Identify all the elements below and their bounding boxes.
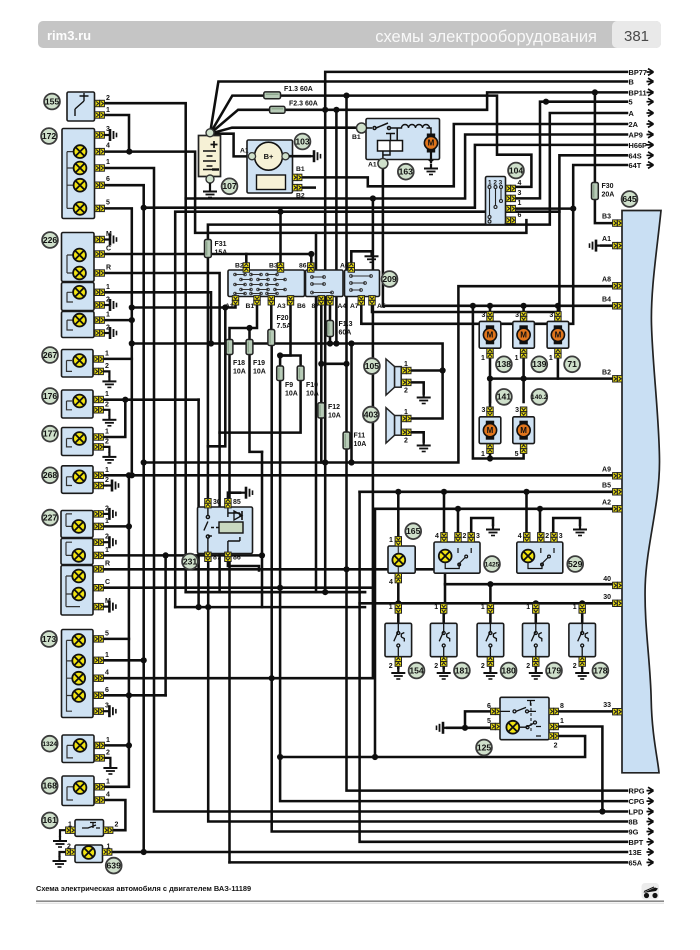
svg-text:40: 40: [603, 576, 611, 583]
svg-text:6: 6: [518, 212, 522, 219]
165 terminal 4: [395, 573, 401, 582]
label circle 177: [42, 426, 58, 442]
label circle 71: [564, 356, 580, 372]
wire switch 155 pin1 to 172 pin4: [102, 115, 129, 152]
139 terminal 3: [520, 312, 526, 321]
fuse F2.3: [270, 106, 285, 113]
svg-text:104: 104: [509, 165, 524, 175]
switch 161: [75, 820, 104, 837]
arrow 64T: [647, 162, 654, 169]
lamp in 226: [73, 314, 86, 327]
label circle 155: [44, 94, 60, 110]
svg-text:1: 1: [404, 361, 408, 368]
inner link 1324: [67, 745, 73, 758]
motor unit 140.2: [513, 417, 535, 444]
svg-text:H66P: H66P: [629, 141, 648, 150]
switch glyph 154: [394, 623, 405, 656]
junction: [277, 754, 283, 760]
227 terminal 1b: [94, 552, 103, 558]
139 terminal 1: [520, 349, 526, 358]
svg-text:M: M: [428, 139, 435, 148]
wire net AP9: [186, 135, 627, 593]
wire switch 179 pin1: [535, 613, 538, 623]
label circle 179: [546, 663, 562, 679]
wire fusebox A3 to F9: [280, 299, 290, 366]
junction: [487, 376, 493, 382]
svg-text:F9: F9: [285, 382, 293, 389]
arrow BPT: [647, 838, 654, 845]
wire switch 179 pin2: [535, 657, 538, 668]
lamp relay unit 1425: [434, 542, 480, 573]
svg-text:B4: B4: [602, 296, 611, 303]
inner link 177: [67, 439, 73, 447]
starter 163: [366, 119, 440, 160]
horn 105 terminal 2: [402, 379, 411, 385]
svg-text:A2: A2: [602, 499, 611, 506]
junction: [440, 367, 446, 373]
svg-text:5: 5: [106, 199, 110, 206]
168 terminal 4: [95, 797, 104, 803]
125 terminal 8: [549, 708, 558, 714]
footer rule: [36, 900, 664, 902]
svg-text:A7: A7: [350, 303, 359, 310]
wire B5 to 529 pin4: [525, 492, 528, 533]
529 terminal 3: [551, 533, 557, 542]
junction: [372, 754, 378, 760]
lamp unit 639: [75, 845, 103, 863]
ground at 161: [53, 836, 67, 847]
label circle 403: [363, 407, 379, 423]
227 terminal 2b: [94, 539, 103, 545]
junction: [570, 206, 576, 212]
wire F12 down: [320, 418, 323, 463]
svg-text:8B: 8B: [629, 818, 638, 827]
wire 172 pin4 to 104 pin6: [104, 152, 526, 233]
switch 180: [477, 623, 504, 656]
switch glyph 181: [439, 623, 450, 656]
junction: [126, 742, 132, 748]
wire motor 138 pin1 down: [489, 356, 492, 459]
svg-text:10A: 10A: [354, 441, 367, 448]
wire horn frame left: [350, 344, 353, 463]
motor M 139: [517, 325, 530, 344]
231 terminal 85: [225, 499, 231, 508]
horn 403: [386, 408, 395, 443]
svg-text:B2: B2: [296, 193, 305, 200]
svg-text:1: 1: [106, 778, 110, 785]
141 terminal 3: [487, 407, 493, 416]
lamp unit 1324: [62, 735, 94, 763]
1425 terminal 4: [441, 533, 447, 542]
motor unit 138: [479, 321, 501, 348]
173 terminal 4: [94, 675, 103, 681]
svg-text:10A: 10A: [233, 369, 246, 376]
arrow H66P: [647, 142, 654, 149]
wire switch 178 pin2: [581, 657, 584, 668]
panel terminal A2: [613, 506, 622, 512]
lamp in 529: [522, 550, 535, 563]
wire to panel A8: [144, 286, 614, 462]
226 terminal 2b: [95, 330, 104, 336]
wire run y592: [186, 591, 365, 594]
svg-text:2: 2: [67, 844, 71, 851]
junction: [205, 604, 211, 610]
lamp unit 176: [62, 390, 94, 418]
fuse F20: [268, 330, 275, 346]
141 terminal 1: [487, 444, 493, 453]
svg-text:M: M: [520, 426, 527, 435]
svg-text:F1.3: F1.3: [339, 321, 353, 328]
wire x262 down: [261, 452, 264, 607]
wire fusebox A1 to relay 30 jog: [208, 308, 225, 447]
wire branch F2.3 down: [335, 110, 338, 344]
wire A2 to 1425 pin2: [457, 509, 460, 533]
svg-text:6: 6: [106, 176, 110, 183]
wire fusebox 87 jog: [321, 363, 346, 366]
wire fusebox A1 left: [132, 299, 236, 308]
motor M 138: [483, 325, 496, 344]
svg-text:A1: A1: [368, 162, 377, 169]
wire net B5: [360, 491, 614, 494]
104 terminal 3: [506, 195, 515, 201]
71 terminal 3: [555, 312, 561, 321]
1425 terminal 2: [455, 533, 461, 542]
svg-text:2: 2: [105, 401, 109, 408]
wire switch 178 pin1: [581, 613, 584, 623]
svg-text:F30: F30: [602, 183, 614, 190]
panel terminal A8: [613, 283, 622, 289]
junction: [523, 489, 529, 495]
ground at 1324: [103, 763, 117, 774]
generator terminal B2: [293, 184, 302, 190]
226 terminal 1b: [95, 317, 104, 323]
wire net 30 bus: [360, 602, 614, 605]
wire 1324 pin1: [104, 744, 129, 747]
wire F9 to net CPG: [280, 381, 627, 802]
lamp relay unit 529: [517, 542, 563, 573]
svg-text:71: 71: [567, 359, 577, 369]
svg-text:2: 2: [404, 438, 408, 445]
svg-text:1: 1: [106, 107, 110, 114]
wire bundle x143.7 down: [142, 186, 145, 852]
svg-text:1: 1: [515, 355, 519, 362]
svg-text:1: 1: [573, 604, 577, 611]
fuse F19: [246, 340, 253, 355]
svg-text:B: B: [629, 78, 634, 87]
svg-text:2: 2: [526, 663, 530, 670]
svg-text:86: 86: [299, 263, 307, 270]
inner links 226: [67, 255, 73, 330]
label circle 140.2: [531, 389, 548, 405]
svg-text:1: 1: [105, 652, 109, 659]
lamp in 173: [72, 689, 85, 702]
lamp block 226 a: [62, 233, 95, 282]
motor M 140.2: [517, 421, 530, 440]
svg-text:163: 163: [399, 166, 414, 176]
svg-text:2: 2: [106, 749, 110, 756]
125 terminal 5: [491, 723, 500, 729]
226 terminal 1: [95, 289, 104, 295]
fusebox terminal B6: [318, 296, 324, 305]
junction: [126, 692, 132, 698]
svg-text:3: 3: [515, 407, 519, 414]
svg-text:181: 181: [455, 665, 470, 675]
junction: [277, 352, 283, 358]
horn 105: [386, 359, 395, 395]
svg-text:BP11: BP11: [629, 88, 647, 97]
svg-text:2: 2: [106, 95, 110, 102]
ground at 267: [102, 376, 116, 387]
wire 176 to 177 link: [104, 400, 125, 437]
svg-text:B3: B3: [602, 214, 611, 221]
wire 173 pin1: [104, 659, 144, 662]
motor M 141: [483, 421, 496, 440]
104 terminal 1: [506, 205, 515, 211]
arrow 65A: [647, 859, 654, 866]
wire 173 pin4 run: [104, 677, 373, 680]
svg-text:1: 1: [105, 391, 109, 398]
junction: [487, 303, 493, 309]
svg-text:64T: 64T: [629, 161, 642, 170]
fusebox terminal B1: [254, 296, 260, 305]
switch 179: [523, 623, 550, 656]
svg-text:2: 2: [105, 477, 109, 484]
svg-text:165: 165: [406, 526, 421, 536]
label circle 231: [182, 554, 198, 570]
svg-text:10A: 10A: [285, 391, 298, 398]
180 terminal 1: [487, 604, 493, 613]
lamp cluster 172: [62, 129, 95, 219]
639 terminal 2: [66, 849, 75, 855]
svg-text:1: 1: [105, 547, 109, 554]
wire 176 run right: [125, 398, 198, 401]
179 terminal 2: [533, 657, 539, 666]
226 terminal 2: [95, 302, 104, 308]
wire 1324 to ground: [104, 758, 110, 764]
label circle 141: [496, 389, 512, 405]
227 terminal M: [94, 603, 103, 609]
svg-text:155: 155: [45, 96, 60, 106]
svg-text:30: 30: [603, 594, 611, 601]
switch 181: [430, 623, 457, 656]
231 terminal 30: [205, 499, 211, 508]
svg-text:2: 2: [481, 663, 485, 670]
140.2 terminal 3: [520, 407, 526, 416]
wire motor 141 pin3: [489, 379, 492, 402]
wire net 64T to 104 pin 1: [507, 165, 627, 209]
wire motor 140.2 pin3: [522, 379, 525, 402]
fusebox 209 section 3: [345, 270, 380, 297]
switch glyph 178: [578, 623, 589, 656]
ground at panel A1: [590, 240, 601, 252]
178 terminal 2: [579, 657, 585, 666]
lamp in 227: [72, 588, 85, 601]
267 terminal 1: [94, 356, 103, 362]
svg-text:1: 1: [107, 844, 111, 851]
wire 529 pin3 gnd: [553, 518, 580, 533]
268 terminal 2: [94, 482, 103, 488]
svg-text:179: 179: [547, 665, 562, 675]
svg-text:15A: 15A: [215, 250, 228, 257]
wire horn 403 pin2 gnd: [411, 432, 424, 441]
junction: [343, 93, 349, 99]
label circle 226: [42, 232, 58, 248]
horn 105 terminal 1: [402, 367, 411, 373]
junction: [370, 195, 376, 201]
1425 terminal 3: [468, 533, 474, 542]
639 terminal 1: [103, 849, 112, 855]
wire 1425 pin3 gnd: [471, 518, 493, 533]
svg-text:F20: F20: [277, 315, 289, 322]
svg-text:4: 4: [106, 143, 110, 150]
junction: [277, 585, 283, 591]
173 terminal 5: [94, 636, 103, 642]
junction: [470, 303, 476, 309]
inner link 168: [67, 787, 73, 800]
172 terminal 1: [95, 165, 104, 171]
173 terminal 3: [94, 708, 103, 714]
label circle 181: [454, 663, 470, 679]
connector 104: [486, 177, 506, 225]
wire fusebox A7 down: [360, 299, 363, 324]
fuse F12: [318, 403, 325, 418]
svg-text:381: 381: [624, 28, 649, 45]
arrow A: [647, 110, 654, 117]
163 solenoid: [378, 141, 403, 152]
wire run y607: [175, 606, 365, 609]
svg-text:141: 141: [497, 392, 512, 402]
wire net B: [210, 82, 627, 134]
svg-text:1: 1: [526, 604, 530, 611]
lamp in 226: [73, 267, 86, 280]
wire motor frame U: [473, 306, 524, 459]
label circle 138: [496, 356, 512, 372]
wire 226 R to fuse F10: [104, 273, 301, 433]
svg-text:A1: A1: [225, 303, 234, 310]
svg-text:87: 87: [312, 303, 320, 310]
wire net 2A to generator B1: [301, 124, 627, 186]
svg-text:B2: B2: [235, 263, 244, 270]
connector 104 pins: [488, 186, 503, 224]
226 terminal M: [95, 236, 104, 242]
ground at 226 pin2: [104, 299, 117, 311]
svg-text:3: 3: [476, 533, 480, 540]
svg-text:2: 2: [434, 663, 438, 670]
fusebox section2 contacts: [311, 276, 334, 294]
panel terminal 30: [613, 600, 622, 606]
svg-text:1: 1: [105, 429, 109, 436]
label circle 154: [409, 663, 425, 679]
wire net A to fuse F31: [208, 113, 627, 240]
battery minus terminal: [206, 175, 214, 183]
starter motor M: [424, 134, 437, 153]
lamp in 227: [72, 549, 85, 562]
wire F30 to panel B3: [595, 200, 614, 224]
label circle 268: [42, 467, 58, 483]
ground at 172 pin3: [104, 129, 117, 141]
inner link 176: [67, 401, 73, 410]
165 terminal 1: [395, 537, 401, 546]
140.2 terminal 5: [520, 444, 526, 453]
svg-text:LPD: LPD: [629, 808, 644, 817]
svg-text:180: 180: [501, 665, 516, 675]
svg-text:20A: 20A: [602, 192, 615, 199]
svg-text:1: 1: [549, 355, 553, 362]
junction: [322, 589, 328, 595]
wire generator B2 stub: [302, 186, 316, 189]
junction: [521, 376, 527, 382]
lamp in 226: [73, 249, 86, 262]
inner link 172: [67, 152, 73, 209]
lamp in 1425: [439, 550, 452, 563]
switch glyph 155: [75, 93, 89, 116]
svg-text:4: 4: [518, 533, 522, 540]
svg-text:4: 4: [389, 579, 393, 586]
svg-text:1: 1: [481, 355, 485, 362]
ground at 125: [437, 722, 448, 734]
svg-text:M: M: [487, 331, 494, 340]
wire 639 to ground: [60, 852, 67, 856]
lamp in 172: [74, 145, 87, 158]
arrow 64S: [647, 152, 654, 159]
switch 178: [569, 623, 596, 656]
svg-text:A5: A5: [377, 303, 386, 310]
panel terminal 40: [613, 582, 622, 588]
svg-text:172: 172: [42, 131, 57, 141]
wire 125 pin6: [465, 711, 500, 727]
529 internals: [528, 548, 554, 569]
wire 125 pin8 to panel 33: [549, 710, 614, 713]
svg-text:B1: B1: [352, 134, 361, 141]
junction: [129, 340, 135, 346]
ground under 154: [391, 668, 405, 679]
label circle 163: [398, 164, 414, 180]
switch 155: [67, 92, 95, 121]
wire switch 154 pin1: [397, 613, 400, 623]
svg-text:10A: 10A: [253, 369, 266, 376]
163 B1 lead: [357, 123, 367, 133]
svg-text:2: 2: [573, 663, 577, 670]
226 terminal C: [95, 251, 104, 257]
svg-text:1: 1: [106, 284, 110, 291]
panel terminal A9: [613, 473, 622, 479]
wire BP11 to fuse F30: [594, 92, 597, 182]
wire switch 181 pin2: [442, 657, 445, 668]
lamp block 227 b: [61, 539, 93, 565]
lamp unit 168: [62, 776, 94, 806]
svg-text:177: 177: [43, 428, 58, 438]
wire 226 pin1 down: [104, 292, 211, 343]
svg-text:87: 87: [213, 555, 221, 562]
label circle 1425: [484, 556, 500, 572]
fusebox section3 contacts: [350, 275, 373, 292]
wire lamp net to horn 403: [132, 344, 443, 419]
svg-text:4: 4: [106, 792, 110, 799]
wire fusebox A6 to ground: [351, 251, 371, 262]
163 A1 lead: [378, 159, 388, 169]
junction: [126, 149, 132, 155]
svg-text:5: 5: [515, 451, 519, 458]
wire fusebox A5 run: [373, 212, 559, 312]
ground under 178: [575, 668, 589, 679]
lamp in 172: [74, 202, 87, 215]
wire B5 to 1425 pin4: [443, 492, 446, 533]
junction: [348, 459, 354, 465]
163 contact and coil: [366, 123, 431, 159]
wire joint: [329, 344, 331, 346]
173 terminal 6: [94, 692, 103, 698]
177 terminal 1: [94, 434, 103, 440]
